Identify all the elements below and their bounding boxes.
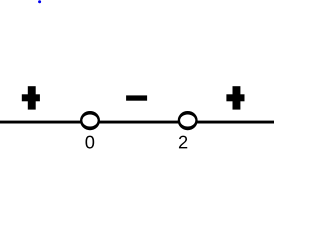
label 0 (85, 136, 94, 149)
plus sign left segment (22, 86, 40, 109)
open circle at 0 (80, 111, 100, 130)
blue point marker (38, 0, 41, 3)
plus sign right segment (226, 86, 244, 109)
minus sign middle segment (126, 95, 147, 100)
open circle at 2 (178, 111, 198, 130)
number line axis (0, 121, 274, 124)
label 2 (179, 136, 187, 149)
